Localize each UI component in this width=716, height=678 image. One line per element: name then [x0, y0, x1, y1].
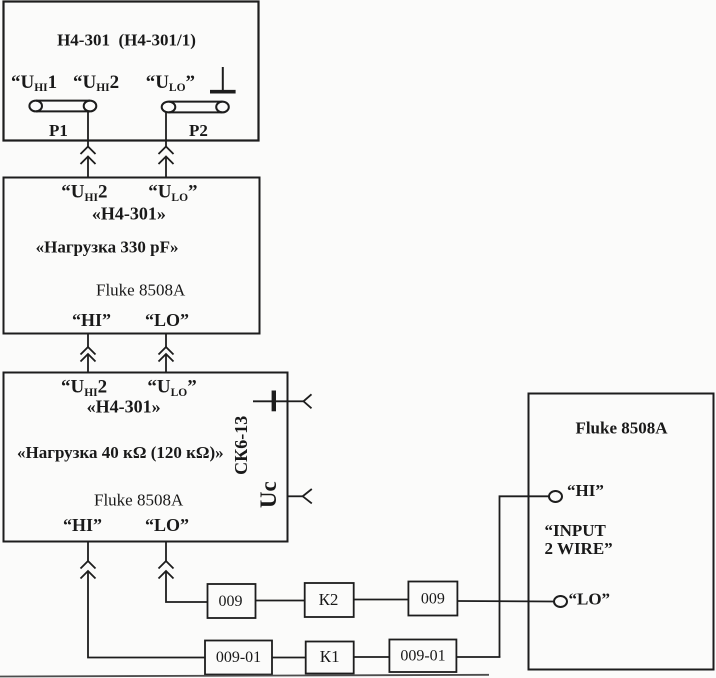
connector X2a: double chevron on HI wire between 330pF load and 40k load	[81, 347, 96, 362]
ground plate symbol on CK6-13 port	[253, 391, 288, 412]
svg-text:“ULO”: “ULO”	[146, 72, 195, 94]
cable box K1	[306, 642, 354, 674]
connector X2b: double chevron on LO wire between 330pF load and 40k load	[159, 347, 174, 362]
svg-text:009-01: 009-01	[400, 648, 445, 665]
svg-text:“LO”: “LO”	[569, 590, 611, 609]
stub wire and open connector on Uc port	[288, 489, 312, 503]
svg-text:2 WIRE”: 2 WIRE”	[545, 539, 613, 558]
wire: UHI2 stub from P1 link down through box edge	[87, 111, 89, 146]
wire: LO stub from 330pF load down	[165, 334, 167, 347]
svg-text:009-01: 009-01	[216, 649, 261, 666]
wire: HI stub from 40k load down	[87, 542, 89, 562]
wire: riser up to Fluke HI terminal	[500, 496, 550, 657]
adapter box 009 (second, LO chain)	[408, 582, 457, 616]
svg-text:«Нагрузка 40 кΩ (120 кΩ)»: «Нагрузка 40 кΩ (120 кΩ)»	[17, 443, 224, 462]
svg-text:Fluke 8508A: Fluke 8508A	[94, 491, 184, 510]
svg-text:Р1: Р1	[49, 121, 68, 140]
adapter box 009-01 (first, HI chain)	[205, 641, 272, 675]
wire: 009-01 to K1	[272, 657, 306, 659]
svg-text:009: 009	[421, 591, 445, 608]
wire: LO run down and right to 009 chain	[166, 571, 208, 602]
adapter box 009 (first, LO chain)	[208, 584, 256, 618]
wire: K1 to 009-01 (second)	[354, 656, 390, 658]
svg-text:СК6-13: СК6-13	[231, 416, 251, 475]
svg-text:Fluke 8508A: Fluke 8508A	[575, 419, 668, 438]
svg-text:«Н4-301»: «Н4-301»	[92, 204, 166, 224]
wire: LO into 330pF load box	[165, 157, 167, 178]
wire: 009 to K2	[256, 600, 305, 602]
wire: HI into 330pF load box	[87, 157, 89, 178]
svg-text:“HI”: “HI”	[63, 515, 102, 535]
wire: LO stub from 40k load down	[165, 542, 167, 562]
wire: 009 to Fluke LO terminal	[457, 600, 554, 603]
svg-text:“HI”: “HI”	[567, 481, 604, 500]
scan artifact: page bottom edge line	[0, 675, 489, 677]
svg-text:“UHI2: “UHI2	[73, 72, 119, 94]
connector X1a: double chevron on HI wire between H4-301 and 330pF load	[81, 147, 96, 165]
wire: HI into 40k load box	[87, 354, 89, 372]
terminal circle HI	[549, 491, 562, 502]
svg-text:“LO”: “LO”	[145, 310, 189, 330]
svg-text:“ULO”: “ULO”	[148, 182, 197, 205]
svg-text:К2: К2	[319, 590, 339, 609]
wire: ULO stub from P2 link down through box edge	[165, 112, 167, 146]
svg-text:“UHI2: “UHI2	[61, 182, 107, 205]
ground symbol (chassis earth) in H4-301	[210, 67, 236, 92]
connector X1b: double chevron on LO wire between H4-301 and 330pF load	[159, 147, 174, 165]
terminal circle LO	[554, 596, 567, 607]
svg-text:К1: К1	[320, 647, 340, 666]
wire: HI run down and right to 009-01 chain	[88, 571, 205, 658]
svg-text:009: 009	[219, 593, 243, 610]
shorting link P2 (ULO-ground jumper)	[162, 102, 229, 113]
svg-text:“HI”: “HI”	[72, 310, 111, 330]
cable box K2	[305, 583, 354, 617]
svg-text:Н4-301 (Н4-301/1): Н4-301 (Н4-301/1)	[57, 31, 196, 50]
svg-text:«Нагрузка 330 pF»: «Нагрузка 330 pF»	[36, 238, 179, 257]
wire: HI stub from 330pF load down	[87, 334, 89, 347]
wire: LO into 40k load box	[165, 354, 167, 372]
connector X3b: double chevron on LO wire below 40k load	[159, 561, 174, 579]
svg-text:“INPUT: “INPUT	[545, 521, 607, 540]
device box U4: Fluke 8508A multimeter	[529, 394, 714, 670]
svg-text:Р2: Р2	[189, 121, 208, 140]
svg-text:“LO”: “LO”	[145, 515, 189, 535]
adapter box 009-01 (second, HI chain)	[389, 640, 456, 673]
connector X3a: double chevron on HI wire below 40k load	[81, 561, 96, 579]
stub wire and open connector on CK6-13 ground port	[288, 394, 312, 408]
svg-text:«Н4-301»: «Н4-301»	[87, 397, 161, 417]
shorting link P1 (UHI1-UHI2 jumper)	[29, 101, 96, 112]
wire: 009-01 right to riser	[457, 656, 501, 658]
svg-text:Fluke 8508A: Fluke 8508A	[96, 281, 186, 300]
device box U3: 40 kOhm (120 kOhm) load	[4, 373, 288, 542]
svg-text:Uc: Uc	[256, 481, 281, 508]
svg-text:“UHI1: “UHI1	[11, 72, 57, 94]
wire: K2 to 009 (second)	[354, 599, 409, 601]
device box U2: 330 pF load	[4, 178, 260, 334]
device box U1: H4-301 calibration unit	[4, 2, 259, 141]
